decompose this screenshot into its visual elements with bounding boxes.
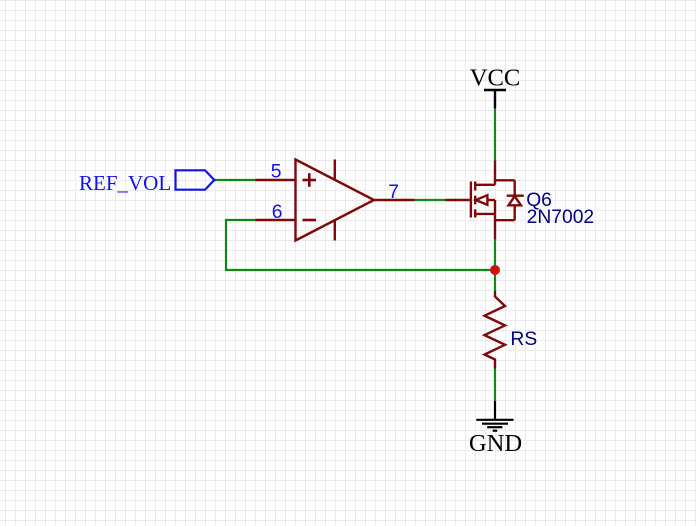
svg-text:6: 6 [272,202,283,223]
svg-text:2N7002: 2N7002 [527,207,595,228]
svg-text:VCC: VCC [470,65,521,92]
svg-text:GND: GND [469,430,522,457]
svg-text:REF_VOL: REF_VOL [79,171,171,195]
svg-text:7: 7 [388,182,399,203]
svg-text:RS: RS [510,329,537,350]
svg-text:5: 5 [271,162,282,183]
